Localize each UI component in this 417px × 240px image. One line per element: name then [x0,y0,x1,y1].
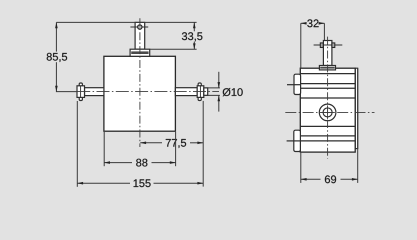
dimension label 32 [307,19,318,27]
right horizontal shaft [175,88,197,96]
dimension 85,5 arrows [55,22,58,28]
vertical shaft side view [323,41,332,66]
dimension 33,5 line [193,22,195,49]
output shaft end circle [319,104,336,121]
dimension 88 line [104,161,176,164]
dimension 88 extension lines [104,132,175,166]
upper screw line [287,84,300,86]
lower screw line [287,140,301,142]
dimension label Ø10 [223,88,243,96]
horizontal centerline front view [77,91,219,93]
vertical centerline front view [139,18,141,147]
dimension label 33,5 [181,31,204,41]
housing plate lines [300,74,355,141]
top extension line at shaft top [56,21,196,23]
dimension label 155 [134,179,151,187]
diameter 10 arrow lines [218,72,221,112]
dimension 32 line [301,22,325,25]
horizontal centerline side view [285,111,374,113]
right extension line (77,5 / 155) [202,101,204,187]
extension line at collar top [150,48,197,50]
left bearing flange [77,83,85,101]
dimension 69 line [301,178,358,181]
right bearing flange [197,83,204,101]
dimension 33,5 arrows [193,22,196,28]
dimension 32 extension lines [301,23,325,68]
shaft collar side view [319,66,335,70]
left horizontal shaft [85,88,104,96]
dimension 155 left extension line [76,101,78,187]
dimension 85,5 extension corner line [56,22,77,91]
cross pin on vertical shaft (end view) [130,25,148,29]
right shaft stub end [204,88,208,96]
shaft collar (top) [130,49,150,56]
dimension label 88 [136,159,147,167]
gearbox body side view [300,68,355,152]
dimension 155 line [77,182,203,185]
vertical output shaft (top) [135,22,145,49]
dimension label 69 [325,175,336,183]
dimension label 77,5 [166,139,186,148]
dimension label 85,5 [45,52,68,63]
rear mounting plate edge [355,68,358,148]
upper mounting lug [294,74,301,94]
dimension 77,5 line [140,142,203,145]
cross pin side view [314,43,343,48]
lower mounting lug [294,130,301,151]
diameter 10 extension lines [204,88,220,96]
dimension 69 extension lines [301,68,358,183]
vertical centerline side view [327,37,329,159]
gearbox body front view [104,56,175,131]
